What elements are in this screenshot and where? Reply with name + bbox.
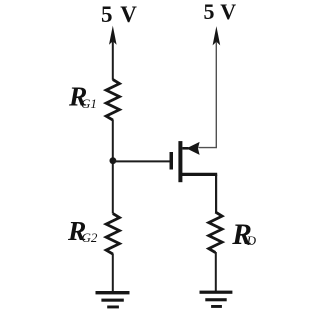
transistor M1 channel bar bbox=[178, 141, 182, 182]
svg-text:G2: G2 bbox=[82, 230, 98, 245]
wire gate bbox=[113, 160, 170, 162]
svg-text:5: 5 bbox=[101, 2, 113, 27]
supply label 5V (right) bbox=[204, 0, 237, 24]
supply label 5V (left) bbox=[101, 2, 137, 27]
wire drain to RD bbox=[215, 174, 217, 212]
resistor RD bbox=[209, 212, 222, 253]
svg-text:5: 5 bbox=[204, 0, 215, 24]
svg-text:G1: G1 bbox=[81, 96, 97, 111]
svg-text:V: V bbox=[120, 2, 137, 27]
label RG1 bbox=[68, 81, 97, 112]
transistor M1 source arrow bbox=[182, 142, 199, 155]
transistor M1 drain lead bbox=[181, 173, 217, 176]
wire RD to ground bbox=[215, 252, 217, 292]
supply arrow (right 5V) bbox=[213, 26, 221, 45]
supply arrow (left 5V) bbox=[109, 26, 117, 80]
resistor RG1 bbox=[106, 80, 119, 121]
resistor RG2 bbox=[106, 214, 119, 255]
svg-text:D: D bbox=[246, 233, 257, 248]
wire RG1 to RG2 bbox=[112, 120, 114, 214]
svg-text:V: V bbox=[220, 0, 236, 24]
wire source to supply (thin) bbox=[199, 42, 217, 148]
ground (left) bbox=[96, 291, 130, 308]
node gate junction dot bbox=[110, 157, 117, 164]
wire RG2 to ground bbox=[112, 254, 114, 293]
label RD bbox=[231, 219, 256, 251]
transistor M1 gate bar bbox=[170, 152, 174, 170]
label RG2 bbox=[67, 215, 98, 246]
ground (right) bbox=[200, 291, 233, 308]
